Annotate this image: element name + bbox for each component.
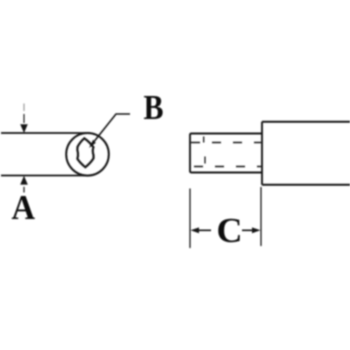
stud outline	[190, 134, 262, 173]
body left edge	[261, 122, 263, 185]
svg-text:A: A	[12, 188, 36, 227]
stud hidden line lower	[191, 166, 261, 168]
dim A lower arrowhead	[20, 176, 28, 185]
stud hidden line upper	[191, 142, 261, 144]
dim C right extension line	[260, 187, 262, 246]
dim A upper stem	[23, 114, 25, 123]
dim C left extension line	[189, 189, 191, 249]
dim C left arrow tail	[195, 229, 211, 231]
dim C right arrow tail	[242, 229, 256, 231]
dim C left arrowhead	[191, 227, 200, 233]
dim A lower stem	[23, 187, 25, 193]
dim A upper arrowhead	[20, 124, 28, 133]
leader line B	[91, 114, 131, 146]
cam bar top line	[1, 132, 90, 134]
dim A upper stem faint part	[23, 104, 25, 112]
leader B arrowhead	[89, 140, 96, 148]
cam shaped hole B	[77, 138, 93, 167]
stud hidden vertical tick lower	[204, 157, 206, 164]
svg-text:B: B	[144, 88, 164, 127]
dim C right arrowhead	[252, 227, 261, 233]
body top edge	[262, 121, 350, 123]
stud hidden vertical tick upper	[203, 137, 205, 143]
body bottom edge	[262, 184, 350, 186]
svg-text:C: C	[217, 211, 243, 250]
cam rounded-end circle	[66, 133, 109, 176]
cam bar bottom line	[1, 175, 90, 177]
